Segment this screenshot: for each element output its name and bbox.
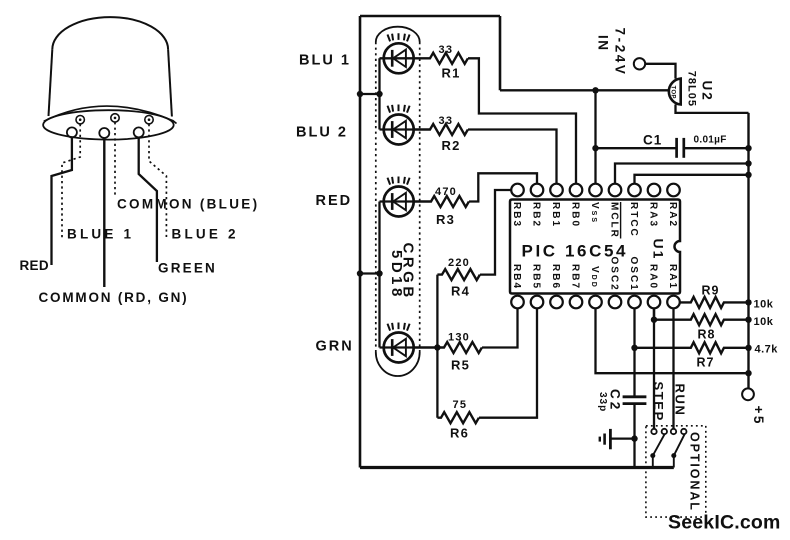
dotted lead wire COMMON (BLUE) (114, 122, 116, 196)
svg-text:33: 33 (439, 44, 454, 56)
svg-text:OSC1: OSC1 (628, 257, 639, 292)
svg-text:TOP: TOP (670, 86, 676, 99)
LED D1 BLU1 (380, 33, 415, 73)
junction dots upper tap (357, 91, 383, 97)
svg-text:RB3: RB3 (511, 202, 522, 228)
pin circle back row 3 (BLUE 2) (145, 116, 153, 124)
svg-text:RA0: RA0 (647, 264, 658, 290)
switch RUN (671, 429, 687, 468)
svg-text:R6: R6 (450, 426, 469, 441)
resistor R1 33 (414, 44, 468, 81)
svg-text:130: 130 (448, 331, 470, 343)
regulator U2 78L05 body (669, 79, 681, 105)
svg-text:RA3: RA3 (647, 202, 658, 228)
svg-text:RUN: RUN (672, 384, 687, 417)
svg-text:470: 470 (435, 186, 457, 198)
svg-text:U2: U2 (700, 81, 715, 102)
svg-text:IN: IN (596, 35, 611, 52)
wire U2 output to right rail (676, 105, 749, 113)
optional dashed box (646, 426, 706, 517)
wire right rail (747, 113, 749, 389)
terminal +5 (742, 388, 766, 426)
wire R6 to RB5 (479, 308, 537, 417)
LED package flange rim arc (44, 106, 177, 123)
ground symbol (600, 429, 635, 449)
svg-text:U1: U1 (651, 239, 667, 261)
svg-text:RTCC: RTCC (628, 202, 639, 238)
svg-text:BLUE 1: BLUE 1 (67, 227, 134, 242)
svg-text:RED: RED (20, 258, 49, 273)
wire branch vertical R4-R6 (436, 275, 438, 418)
svg-text:4.7k: 4.7k (755, 344, 779, 356)
wire R1 to RB0 (468, 58, 576, 183)
terminal 7-24V IN (596, 28, 646, 77)
svg-text:MCLR: MCLR (608, 202, 619, 239)
svg-text:10k: 10k (754, 299, 774, 311)
pin circle back row 1 (BLUE 1) (76, 116, 84, 124)
svg-text:STEP: STEP (651, 382, 666, 422)
svg-text:RB2: RB2 (530, 202, 541, 228)
svg-text:R8: R8 (698, 328, 716, 342)
svg-text:OSC2: OSC2 (608, 257, 619, 292)
junction dot Vss power line (592, 87, 598, 93)
svg-text:75: 75 (453, 399, 468, 411)
pin circle back row 2 (COMMON BLUE) (111, 114, 119, 122)
resistor R7 4.7k (635, 342, 779, 369)
svg-text:RA1: RA1 (667, 264, 678, 290)
package CRGB outline dotted sides and arcs (376, 27, 420, 376)
svg-text:BLUE 2: BLUE 2 (172, 227, 239, 242)
LED package dome outline (49, 17, 172, 116)
junction dots right rail (745, 145, 751, 376)
wire R5 to RB4 (482, 308, 518, 347)
svg-text:COMMON (BLUE): COMMON (BLUE) (117, 197, 259, 212)
svg-text:PIC 16C54: PIC 16C54 (522, 242, 629, 261)
wire Vdd to right rail (596, 308, 749, 373)
svg-text:RB5: RB5 (530, 264, 541, 290)
LED D3 RED (380, 177, 415, 217)
svg-text:RA2: RA2 (667, 202, 678, 228)
svg-text:C2: C2 (608, 389, 623, 412)
svg-text:GREEN: GREEN (158, 261, 217, 276)
pin circle front row 3 (GREEN) (134, 127, 144, 137)
svg-text:RB6: RB6 (550, 264, 561, 290)
svg-text:10k: 10k (754, 316, 774, 328)
svg-text:R4: R4 (451, 284, 470, 299)
svg-text:5D18: 5D18 (388, 250, 405, 300)
LED D4 GRN (380, 323, 415, 363)
wire tap rail to link (lower) (360, 272, 380, 274)
wire RA1 to RUN switch (672, 308, 674, 429)
capacitor C2 33p (597, 389, 646, 412)
svg-text:R3: R3 (436, 212, 455, 227)
svg-text:BLU 2: BLU 2 (296, 125, 348, 141)
resistor R2 33 (414, 115, 468, 153)
junction dot branch at R5 (434, 344, 440, 350)
resistor R6 75 (437, 399, 478, 440)
wire LED1-LED2 cathode link (378, 58, 380, 129)
chip top pin labels (511, 202, 678, 239)
resistor R8 10k (654, 308, 774, 341)
svg-text:R1: R1 (442, 66, 461, 81)
junction dot R8 on RA0 (651, 317, 657, 323)
wire Vss pin to power line (594, 90, 596, 183)
LED D2 BLU2 (380, 105, 415, 145)
resistor R9 10k (680, 284, 774, 311)
MCLR overline (620, 202, 622, 239)
svg-text:RB0: RB0 (569, 202, 580, 228)
op chip U1 PIC16C54 body (510, 200, 680, 294)
chip pin circles bottom row (511, 296, 680, 309)
junction dot Vss C1 line (592, 145, 598, 151)
wire R2 to RB1 (468, 130, 557, 184)
wire terminal to U2 input (645, 64, 675, 79)
dotted lead wire BLUE 1 (62, 124, 80, 239)
svg-text:33p: 33p (597, 392, 608, 412)
resistor R4 220 (437, 257, 479, 299)
wire C2 to bottom rail (633, 404, 635, 467)
svg-text:GRN: GRN (316, 339, 354, 355)
svg-text:OPTIONAL: OPTIONAL (688, 432, 702, 512)
svg-text:RB7: RB7 (569, 264, 580, 290)
dotted lead wire BLUE 2 (149, 124, 166, 239)
svg-text:78L05: 78L05 (686, 71, 698, 107)
label CRGB 5D18 (rotated) (388, 243, 417, 301)
wire OSC1 to C2 (633, 308, 635, 396)
lead wire RED (52, 137, 72, 265)
switch STEP (650, 429, 667, 468)
svg-text:COMMON (RD, GN): COMMON (RD, GN) (39, 290, 189, 305)
resistor R5 130 (414, 331, 482, 372)
capacitor C1 0.01uF (596, 133, 749, 158)
wire bottom rail (360, 466, 674, 469)
chip bottom pin labels (511, 257, 678, 292)
svg-text:R7: R7 (697, 356, 715, 370)
svg-text:0.01µF: 0.01µF (694, 135, 727, 146)
svg-text:220: 220 (448, 257, 470, 269)
svg-text:RB4: RB4 (511, 264, 522, 290)
chip pin circles top row (511, 184, 680, 197)
svg-text:C1: C1 (643, 133, 662, 148)
wire R4 to RB3 (480, 190, 511, 275)
wire power line to U2 (500, 89, 669, 91)
pin circle front row 2 (COMMON RD GN) (99, 128, 109, 138)
wire R3 to RB2 (469, 173, 537, 201)
svg-text:RB1: RB1 (550, 202, 561, 228)
resistor R3 470 (414, 186, 469, 227)
wire tap rail to link (upper) (360, 93, 380, 95)
wire RTCC pull-up (635, 175, 749, 184)
svg-text:+5: +5 (751, 406, 766, 426)
wire left rail (359, 16, 362, 468)
svg-text:BLU 1: BLU 1 (299, 53, 351, 69)
wire right drop from top rail (499, 16, 502, 90)
svg-text:R9: R9 (702, 284, 720, 298)
LED package base flange ellipse (43, 110, 174, 139)
svg-text:7-24V: 7-24V (613, 28, 628, 77)
junction dots lower tap (357, 270, 383, 276)
wire MCLR pull-up (615, 164, 749, 184)
svg-text:SeekIC.com: SeekIC.com (668, 512, 781, 534)
junction dot ground tee (631, 435, 637, 441)
svg-text:R5: R5 (451, 358, 470, 373)
svg-text:RED: RED (316, 193, 353, 209)
wire LED3-LED4 cathode link (378, 202, 380, 348)
pin circle front row 1 (RED) (67, 127, 77, 137)
wire top rail (360, 15, 500, 18)
lead wire COMMON (RD,GN) (103, 138, 105, 287)
svg-text:33: 33 (439, 115, 454, 127)
junction dot R7 on OSC1 (631, 345, 637, 351)
lead wire GREEN (139, 137, 157, 262)
wire RA0 to STEP switch (653, 308, 655, 429)
svg-text:R2: R2 (442, 138, 461, 153)
